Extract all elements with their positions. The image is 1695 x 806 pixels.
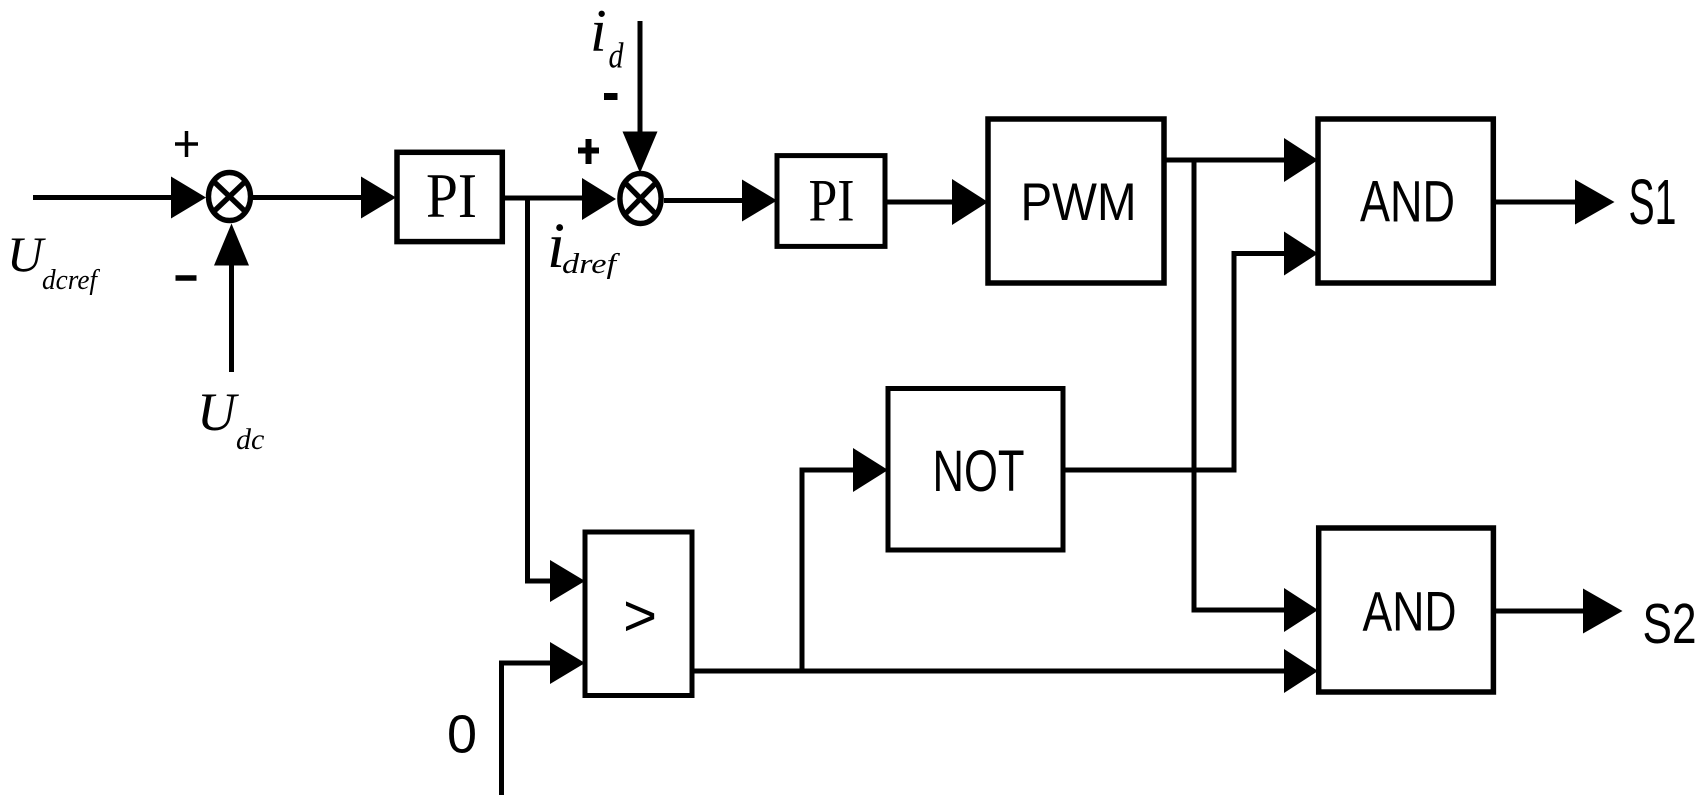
plus sign at summing junction 1 [175,131,198,157]
NOT box [888,389,1063,551]
summing junction 1 (circle with X) [209,173,251,221]
svg-text:S2: S2 [1643,592,1695,656]
arrowhead into NOT box [853,448,888,492]
minus sign at summing junction 1 [176,275,197,281]
wire: U_dc vertical input [229,262,234,372]
wire: i_d vertical input [638,21,643,136]
wire: NOT output to AND1 input 2 [1063,254,1286,471]
AND box 2 [1319,528,1494,692]
svg-text:AND: AND [1360,170,1455,235]
svg-text:PI: PI [809,168,855,234]
comparator box [585,532,692,696]
svg-text:i: i [590,0,607,64]
wire: AND1 output [1493,200,1578,205]
svg-text:PI: PI [426,161,477,231]
wire: PWM output to AND1 input 1 [1164,158,1286,163]
arrowhead into PI box 2 [742,180,777,222]
svg-text:>: > [623,584,657,649]
svg-text:NOT: NOT [933,439,1025,504]
svg-text:dcref: dcref [42,264,101,296]
arrowhead into comparator input 2 [550,642,585,684]
svg-text:0: 0 [447,705,477,765]
AND box 1 [1318,119,1493,283]
wire: U_dcref input horizontal [33,195,175,200]
arrowhead i_d into summing junction 2 [623,132,658,174]
wire: PI box 2 to PWM box [885,200,955,205]
PI box 2 [777,156,885,247]
svg-text:PWM: PWM [1021,173,1137,232]
svg-text:AND: AND [1363,580,1457,643]
wire: summing junction 1 to PI box 1 [253,195,363,200]
arrowhead into PWM box [952,179,988,225]
arrowhead into AND2 input 1 [1284,588,1318,632]
arrowhead S1 output [1575,180,1615,225]
arrowhead into PI box 1 [361,177,396,219]
arrowhead into summing junction 2 [582,178,616,220]
arrowhead into AND1 input 2 [1284,232,1318,276]
svg-text:S1: S1 [1629,166,1677,238]
arrowhead S2 output [1583,589,1623,634]
PI box 1 [397,152,502,241]
arrowhead into AND1 input 1 [1284,138,1318,182]
svg-text:U: U [197,382,239,442]
summing junction 2 (circle with X) [620,174,661,224]
wire: comparator output to AND2 input 2 [692,669,1286,674]
wire: AND2 output [1493,609,1585,614]
wire: PI box 1 to summing junction 2 [502,196,585,201]
arrowhead into comparator input 1 [550,560,585,602]
minus sign at summing junction 2 [604,93,618,100]
wire: zero input to comparator input 2 [502,663,553,795]
svg-text:U: U [7,226,46,282]
PWM box [988,119,1164,283]
wire: branch from PWM output down to AND2 input 1 [1194,160,1286,610]
arrowhead into AND2 input 2 [1284,649,1318,693]
wire: comparator output up to NOT input [802,470,855,671]
wire: summing junction 2 to PI box 2 [664,198,745,203]
arrowhead U_dc into summing junction 1 [214,224,249,266]
plus sign at summing junction 2 [578,139,599,164]
svg-text:dc: dc [236,423,264,456]
wire: branch from i_dref down to comparator input 1 [528,198,553,581]
arrowhead into summing junction 1 [171,177,206,219]
svg-text:d: d [609,36,625,76]
svg-text:dref: dref [562,249,620,280]
